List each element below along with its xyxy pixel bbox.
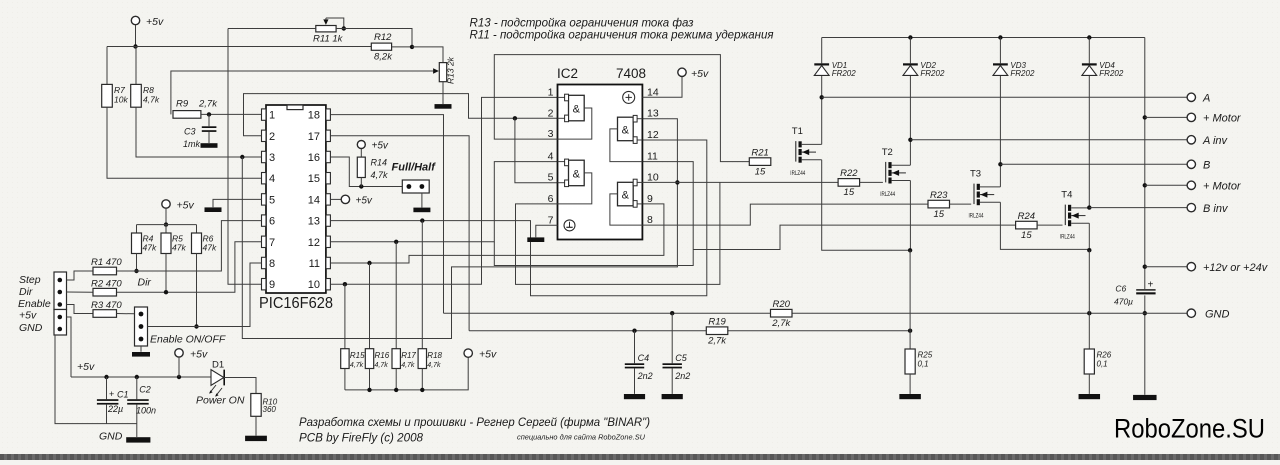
- svg-text:+5v: +5v: [356, 195, 373, 206]
- wire +5v pin to rail: [67, 317, 72, 377]
- ground below C4: [624, 394, 645, 399]
- svg-text:7408: 7408: [616, 66, 646, 81]
- wire VD1 column: [821, 38, 823, 98]
- wire +12v line: [1145, 266, 1187, 268]
- svg-text:14: 14: [647, 86, 659, 98]
- svg-text:+5v: +5v: [146, 16, 164, 28]
- svg-text:8,2k: 8,2k: [374, 52, 393, 63]
- svg-text:R8: R8: [143, 85, 154, 95]
- svg-text:R16: R16: [375, 351, 390, 360]
- svg-text:FR202: FR202: [1099, 69, 1124, 78]
- connector J2 power pins: [54, 310, 67, 336]
- svg-text:2: 2: [548, 107, 554, 119]
- ground below R26: [1079, 394, 1101, 399]
- wire R8 drop: [135, 47, 137, 85]
- wire +5v terminal stem: [178, 357, 180, 377]
- PIC right pin boxes and numbers 18-10: [308, 109, 331, 291]
- terminal A inv: [1187, 136, 1195, 144]
- resistor R26 0,1: [1084, 250, 1112, 394]
- node R6/Enable junction: [194, 324, 198, 328]
- svg-text:16: 16: [308, 152, 320, 164]
- svg-text:Enable ON/OFF: Enable ON/OFF: [150, 334, 226, 346]
- node phase A junction: [820, 95, 824, 99]
- svg-text:Full/Half: Full/Half: [392, 162, 437, 174]
- terminal B: [1187, 160, 1195, 168]
- gate IC2a (pins 1,2 -> 3): [558, 94, 592, 139]
- svg-text:C2: C2: [139, 385, 151, 395]
- svg-text:470µ: 470µ: [1114, 297, 1133, 307]
- wire R7 drop: [106, 47, 108, 85]
- wire C6 to ground: [1144, 295, 1146, 394]
- node R9/C3 junction: [207, 112, 211, 116]
- svg-text:IRLZ44: IRLZ44: [969, 213, 984, 220]
- wire PIC pin17 to current sense line B (R19): [330, 136, 469, 331]
- wire +Motor rail right side down: [1144, 38, 1146, 290]
- svg-text:+: +: [109, 389, 114, 399]
- resistor R23: [928, 200, 950, 208]
- resistor R14 4,7k: [357, 149, 388, 187]
- svg-text:13: 13: [308, 216, 320, 228]
- node R26 sense tap: [1087, 311, 1091, 315]
- svg-text:R3 470: R3 470: [91, 300, 122, 311]
- svg-text:2,7k: 2,7k: [771, 318, 791, 329]
- wire PIC pin7 to Dir line: [117, 242, 262, 292]
- resistor R20: [771, 309, 793, 317]
- svg-text:15: 15: [844, 187, 855, 198]
- resistor R22: [838, 179, 860, 187]
- svg-text:4,7k: 4,7k: [427, 362, 441, 369]
- wire PIC pin6 to Step line: [117, 221, 262, 271]
- wire R4-R6 top rail: [137, 224, 197, 226]
- wire VD2 column: [909, 38, 911, 140]
- resistor R19: [706, 327, 728, 335]
- svg-text:47k: 47k: [172, 243, 186, 253]
- wire R11 left end to PIC pin9 riser: [228, 28, 316, 30]
- svg-text:Разработка схемы и прошивки -: Разработка схемы и прошивки - Регнер Сер…: [299, 417, 650, 429]
- svg-text:+12v or +24v: +12v or +24v: [1203, 262, 1269, 274]
- ground at PIC pin5: [205, 207, 222, 212]
- diode VD3 VD3 FR202: [993, 61, 1035, 78]
- terminal +Motor 2: [1187, 181, 1195, 189]
- node C5 tap: [670, 311, 674, 315]
- ground below Full/Half: [413, 208, 430, 213]
- wire R11 to R12 node: [336, 29, 412, 47]
- potentiometer R13 2k: [433, 56, 455, 84]
- svg-text:R18: R18: [427, 351, 442, 360]
- node PWM/IC2 pin5 branch: [513, 116, 517, 120]
- svg-text:10k: 10k: [114, 95, 128, 105]
- svg-text:11: 11: [309, 258, 320, 270]
- diode VD4 VD4 FR202: [1082, 61, 1124, 78]
- svg-text:T2: T2: [882, 147, 893, 158]
- svg-text:C5: C5: [675, 353, 687, 363]
- capacitor C4 2n2: [625, 331, 653, 394]
- transistor T1 (IRLZ44 n-channel MOSFET): [790, 126, 821, 177]
- node R5 top: [164, 222, 168, 226]
- svg-text:IRLZ44: IRLZ44: [1060, 234, 1075, 241]
- svg-text:4,7k: 4,7k: [401, 362, 415, 369]
- svg-text:4: 4: [548, 151, 554, 163]
- ground below C3: [201, 143, 218, 148]
- svg-text:R22: R22: [840, 168, 858, 179]
- wire phase A line: [822, 96, 1187, 98]
- svg-text:100n: 100n: [136, 406, 156, 416]
- svg-text:1: 1: [548, 86, 554, 98]
- svg-text:+ Motor: + Motor: [1203, 181, 1242, 193]
- wire +5v terminal to rail: [135, 25, 137, 47]
- svg-text:0,1: 0,1: [918, 360, 929, 369]
- svg-text:4,7k: 4,7k: [350, 362, 364, 369]
- svg-text:3: 3: [269, 152, 275, 164]
- ground below R13: [435, 104, 452, 109]
- svg-text:PIC16F628: PIC16F628: [259, 295, 333, 312]
- svg-text:+5v: +5v: [190, 349, 208, 361]
- svg-text:15: 15: [755, 166, 766, 177]
- wire PIC pin2 PWM to IC2 pin2: [244, 94, 558, 136]
- wire IC2 pin7 to ground: [536, 225, 558, 237]
- terminal +12v or +24v: [1187, 263, 1195, 271]
- IC2 power symbol (+): [623, 91, 635, 103]
- svg-text:Power ON: Power ON: [196, 395, 245, 407]
- svg-text:&: &: [622, 190, 630, 202]
- diode VD2 VD2 FR202: [903, 61, 945, 78]
- svg-text:Enable: Enable: [18, 298, 51, 310]
- node VD2 rail tap: [908, 35, 912, 39]
- ground bar below C6: [1133, 395, 1157, 400]
- wire +Motor line 2: [1145, 184, 1187, 186]
- wire R1 to riser: [117, 270, 222, 272]
- +5v terminal near power-on: [175, 349, 183, 357]
- wire IC2 pin8 to R23: [642, 204, 928, 225]
- node R18 tap: [420, 218, 424, 222]
- wire R3 jog: [67, 305, 94, 314]
- svg-text:R13 2k: R13 2k: [446, 56, 456, 84]
- node GND tap: [1143, 311, 1147, 315]
- svg-text:4,7k: 4,7k: [375, 362, 389, 369]
- node VD3 rail tap: [998, 35, 1002, 39]
- wire switch bottom to ground: [140, 346, 142, 352]
- resistor R2 470: [93, 288, 117, 296]
- svg-text:2n2: 2n2: [674, 371, 690, 381]
- wire PIC pin16 to R14 / Full-Half switch: [330, 157, 402, 187]
- wire R13 bottom to ground: [442, 82, 444, 104]
- wire T3 source to R26 node: [1000, 202, 1089, 249]
- potentiometer R11 1k: [313, 18, 344, 45]
- wire Step pin to R1: [67, 271, 94, 280]
- wire Full/Half to ground: [421, 193, 423, 208]
- node R16 tap: [367, 261, 371, 265]
- svg-text:C6: C6: [1115, 284, 1126, 294]
- resistor R16 4,7k: [365, 263, 389, 390]
- svg-text:15: 15: [1021, 230, 1032, 241]
- wire IC2 pin14 to +5v: [642, 76, 682, 97]
- terminal +Motor 1: [1187, 113, 1195, 121]
- node R17 tap: [394, 240, 398, 244]
- ground below Enable switch: [132, 352, 150, 357]
- svg-text:IRLZ44: IRLZ44: [790, 170, 805, 177]
- svg-text:10: 10: [308, 279, 320, 291]
- node C1 tap: [104, 375, 108, 379]
- svg-text:6: 6: [269, 216, 275, 228]
- connector J1 signal pins: [54, 272, 67, 310]
- svg-text:A inv: A inv: [1202, 135, 1229, 147]
- svg-text:+ Motor: + Motor: [1203, 113, 1242, 125]
- switch Full/Half: [392, 162, 437, 194]
- capacitor C6 470u: [1114, 280, 1156, 307]
- svg-text:5: 5: [548, 172, 554, 184]
- ground below R10: [245, 436, 267, 441]
- terminal A: [1187, 93, 1195, 101]
- svg-text:C1: C1: [117, 390, 129, 400]
- wire R22 to T2 gate: [860, 181, 883, 183]
- svg-text:2: 2: [269, 131, 275, 143]
- svg-text:14: 14: [308, 194, 320, 206]
- ground below R25: [899, 394, 921, 399]
- svg-text:C4: C4: [638, 353, 650, 363]
- wire GND pin down: [55, 335, 137, 424]
- node R15 tap: [343, 282, 347, 286]
- resistor R3 470: [93, 310, 117, 318]
- svg-text:47k: 47k: [203, 243, 217, 253]
- svg-text:+5v: +5v: [19, 310, 37, 322]
- wire +5v rail y=46.5: [107, 46, 371, 48]
- switch Enable ON/OFF: [135, 307, 226, 346]
- svg-text:360: 360: [263, 405, 277, 414]
- node phase A-inv junction: [908, 138, 912, 142]
- wire VD4 column: [1088, 38, 1090, 208]
- svg-text:15: 15: [308, 173, 320, 185]
- svg-text:18: 18: [308, 110, 320, 122]
- ground below C5: [662, 394, 683, 399]
- svg-text:+5v: +5v: [372, 141, 389, 152]
- node R11 wiper junction: [342, 26, 346, 30]
- resistor R1 470: [93, 267, 117, 275]
- PIC top notch: [287, 105, 303, 110]
- ground bar bottom left: [126, 437, 150, 442]
- resistor R10 360: [251, 394, 278, 417]
- svg-text:0,1: 0,1: [1097, 360, 1108, 369]
- svg-text:6: 6: [548, 193, 554, 205]
- wire R3 to Enable switch: [117, 313, 135, 315]
- PIC left pin boxes and numbers 1-9: [262, 109, 276, 291]
- svg-text:RoboZone.SU: RoboZone.SU: [1114, 414, 1265, 444]
- wire R6 bottom to Enable line: [196, 254, 198, 327]
- svg-text:R1 470: R1 470: [91, 257, 122, 268]
- +5v terminal at IC2 pin14: [678, 68, 686, 76]
- node C2 tap: [135, 375, 139, 379]
- wire R8 to PIC pin3: [136, 107, 262, 157]
- svg-text:+: +: [1148, 280, 1154, 291]
- capacitor C3 1mk: [183, 114, 216, 149]
- wire PIC pin11 to IC2 pin9: [330, 204, 664, 263]
- wire T2 drain riser: [909, 140, 911, 165]
- wire PIC pin8 to Enable switch: [148, 263, 262, 327]
- gate IC2b (pins 4,5 -> 6): [558, 159, 592, 204]
- +5v terminal (top left): [131, 16, 139, 24]
- wire R9 left to R13 wiper line: [171, 71, 433, 114]
- wire R7 to PIC pin4: [107, 107, 262, 178]
- svg-text:T4: T4: [1061, 190, 1072, 201]
- wire phase A-inv line: [910, 139, 1187, 141]
- svg-text:B: B: [1203, 160, 1210, 172]
- wire R15-R18 bottom rail to +5v: [345, 357, 468, 390]
- svg-text:IRLZ44: IRLZ44: [880, 191, 895, 198]
- wire riser x=228 to PIC pin9: [228, 29, 262, 285]
- +5v terminal above R14: [357, 141, 365, 149]
- svg-text:&: &: [622, 125, 630, 137]
- wire PWM branch to IC2 pin5: [515, 118, 558, 182]
- svg-text:R15: R15: [350, 351, 365, 360]
- terminal B inv: [1187, 203, 1195, 211]
- wire IC2 pin3 to top bus / R21: [494, 55, 749, 162]
- svg-text:FR202: FR202: [832, 69, 857, 78]
- svg-text:FR202: FR202: [920, 69, 945, 78]
- svg-text:R9: R9: [176, 99, 189, 110]
- resistor R9 2,7k: [173, 111, 201, 119]
- svg-text:B inv: B inv: [1203, 203, 1229, 215]
- svg-text:R7: R7: [114, 85, 125, 95]
- resistor R17 4,7k: [392, 242, 416, 390]
- wire R9 to PIC pin1: [201, 113, 262, 115]
- svg-text:1: 1: [269, 110, 275, 122]
- diode VD1 VD1 FR202: [814, 61, 856, 78]
- wire R23 to T3 gate: [950, 203, 972, 205]
- node phase B junction: [998, 162, 1002, 166]
- svg-text:1mk: 1mk: [183, 139, 201, 149]
- resistor R24: [1016, 221, 1038, 229]
- gate IC2d (pins 10,9 -> 8): [610, 179, 643, 225]
- svg-text:4,7k: 4,7k: [371, 170, 389, 180]
- node R17 bottom: [394, 388, 398, 392]
- transistor T2 (IRLZ44 n-channel MOSFET): [880, 147, 910, 198]
- svg-text:+5v: +5v: [177, 200, 195, 212]
- svg-text:R20: R20: [773, 299, 791, 310]
- svg-text:A: A: [1202, 93, 1210, 105]
- svg-text:17: 17: [308, 131, 320, 143]
- node R14 bottom junction: [359, 184, 363, 188]
- LED D1 Power ON: [196, 360, 245, 407]
- +5v terminal at pin14: [341, 195, 349, 203]
- node +Motor tap 1: [1143, 115, 1147, 119]
- svg-text:9: 9: [647, 193, 653, 205]
- svg-text:4: 4: [269, 173, 275, 185]
- wire PIC pin5 to ground: [213, 199, 262, 207]
- wire D1 cathode to R10: [224, 378, 256, 394]
- svg-text:R11 - подстройка ограничения т: R11 - подстройка ограничения тока режима…: [470, 27, 775, 41]
- terminal GND: [1187, 309, 1195, 317]
- wire T4 drain stub: [1088, 207, 1090, 209]
- resistor R7 10k: [102, 84, 113, 107]
- wire phase B-inv line: [1089, 207, 1187, 209]
- node +5v rail junction: [133, 44, 137, 48]
- gate IC2c (pins 13,12 -> 11): [610, 115, 643, 161]
- wire R10 to ground: [255, 416, 257, 435]
- svg-text:R14: R14: [371, 158, 388, 168]
- node R25 sense tap: [908, 329, 912, 333]
- wire PIC pin18 to current sense line A (R20): [330, 115, 443, 314]
- IC2 right pin numbers: [647, 86, 659, 226]
- IC2 left pin numbers: [548, 86, 554, 226]
- IC2 7408 quad AND body: [558, 85, 643, 240]
- svg-text:GND: GND: [1205, 309, 1230, 321]
- svg-text:IC2: IC2: [557, 66, 578, 81]
- svg-text:2n2: 2n2: [637, 371, 653, 381]
- resistor R8 4,7k: [131, 84, 142, 107]
- svg-text:T3: T3: [970, 169, 981, 180]
- svg-text:+5v: +5v: [77, 361, 95, 373]
- node VD4 rail tap: [1087, 35, 1091, 39]
- node pin3 junction: [240, 155, 244, 159]
- node IC2 pin13/pin10 tie: [675, 180, 679, 184]
- wire sense line B (pin17-C4-R19-R25): [469, 330, 910, 332]
- wire GND line to terminal: [1145, 312, 1187, 314]
- node C4 tap: [632, 329, 636, 333]
- svg-text:R25: R25: [918, 351, 933, 360]
- wire Dir pin to R2: [67, 291, 94, 293]
- svg-text:Dir: Dir: [19, 286, 33, 298]
- +5v terminal above R4-R6: [162, 200, 170, 208]
- wire +Motor line 1: [1145, 116, 1187, 118]
- IC U1 PIC16F628 microcontroller body: [266, 105, 326, 293]
- wire VD3 column: [999, 38, 1001, 165]
- svg-text:3: 3: [548, 128, 554, 140]
- svg-text:R11 1k: R11 1k: [313, 34, 344, 45]
- node +12v tap: [1143, 265, 1147, 269]
- ground at IC2 pin7: [527, 237, 544, 242]
- svg-text:R26: R26: [1097, 351, 1112, 360]
- svg-text:12: 12: [647, 129, 659, 141]
- svg-text:2,7k: 2,7k: [198, 99, 218, 110]
- transistor T3 (IRLZ44 n-channel MOSFET): [969, 169, 1001, 220]
- svg-text:D1: D1: [212, 360, 224, 371]
- wire T3 drain riser: [999, 164, 1001, 187]
- svg-text:&: &: [573, 104, 581, 116]
- svg-text:FR202: FR202: [1010, 69, 1035, 78]
- wire PIC pin12 branch to gate3 output bus: [494, 162, 693, 266]
- wire IC2 pin6 to R22 bus: [516, 182, 720, 284]
- wire +5v to R4-R6 rail: [165, 208, 167, 224]
- svg-text:11: 11: [647, 151, 658, 163]
- resistor R12 8,2k: [371, 43, 391, 50]
- svg-text:GND: GND: [19, 322, 43, 334]
- svg-text:&: &: [573, 168, 581, 180]
- node T3/T4 source junction: [1087, 248, 1091, 252]
- resistor R4 47k: [132, 225, 157, 254]
- wire +Motor top rail: [822, 37, 1145, 39]
- svg-text:47k: 47k: [143, 243, 157, 253]
- svg-text:4,7k: 4,7k: [143, 95, 160, 105]
- node T1/T2 source junction: [908, 248, 912, 252]
- wire PIC pin14 to +5v: [330, 198, 341, 200]
- node R12/R13 junction: [410, 45, 414, 49]
- svg-text:10: 10: [647, 171, 659, 183]
- wire switch middle pin: [148, 326, 251, 328]
- wire T1 drain riser: [821, 97, 823, 144]
- svg-text:PCB by FireFly (c) 2008: PCB by FireFly (c) 2008: [299, 433, 424, 445]
- wire R4 bottom to Step line: [136, 254, 138, 272]
- svg-text:7: 7: [548, 214, 554, 226]
- capacitor C5 2n2: [663, 313, 691, 394]
- svg-text:8: 8: [647, 214, 653, 226]
- svg-text:специально для сайта RoboZone.: специально для сайта RoboZone.SU: [517, 433, 646, 442]
- svg-text:T1: T1: [792, 126, 803, 137]
- svg-text:13: 13: [647, 108, 659, 120]
- svg-text:Step: Step: [19, 274, 41, 286]
- svg-text:R19: R19: [708, 316, 726, 327]
- svg-text:5: 5: [269, 194, 275, 206]
- wire node to R13 top: [412, 47, 443, 63]
- wire sense line A (pin18-C5-R20-GND): [444, 312, 1145, 314]
